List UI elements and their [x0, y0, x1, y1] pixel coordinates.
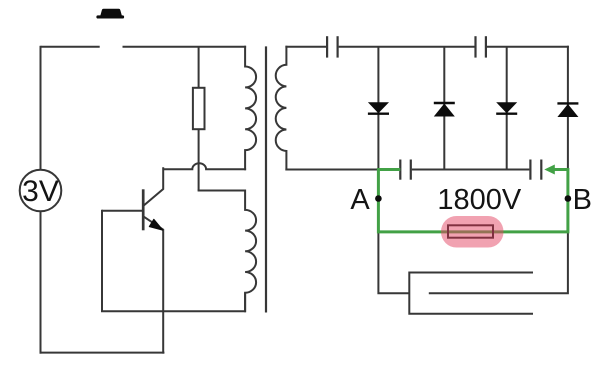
svg-text:3V: 3V — [22, 175, 59, 208]
resistor R1 — [193, 88, 205, 129]
push button S1 cap — [96, 9, 124, 19]
top rail wire segment 1 — [285, 46, 326, 48]
green arrow into capacitor C4 — [544, 165, 555, 175]
diode D1 (pointing down) — [368, 102, 389, 114]
node B dot — [565, 195, 572, 202]
svg-text:1800V: 1800V — [437, 184, 522, 216]
wire battery bottom horizontal — [40, 352, 165, 354]
transformer feedback winding W1 (top-left) — [245, 46, 256, 170]
bottom rail wire segment 1 (secondary to node A column) — [285, 169, 379, 171]
diode D3 (pointing down) — [496, 102, 517, 114]
electrode comb A (outer prongs) — [408, 273, 533, 314]
diode D4 column wire — [567, 46, 569, 171]
wire collector to feedback winding with hop over resistor wire — [163, 163, 246, 169]
feedback loop wire (base to winding bottom) — [102, 211, 245, 311]
electrode wire from node B column — [429, 230, 568, 293]
capacitor C3 — [400, 160, 411, 180]
diode D4 (pointing up) — [557, 103, 578, 117]
transistor Q1 — [102, 167, 163, 353]
pink highlight over fuse — [441, 216, 504, 248]
bottom rail wire segment 2 — [412, 169, 530, 171]
capacitor C1 — [327, 36, 338, 57]
capacitor C4 — [530, 160, 541, 180]
diode D2 (pointing up) — [434, 103, 455, 117]
transformer secondary winding — [276, 46, 287, 171]
electrode wire from node A column — [378, 230, 409, 293]
transformer primary winding W2 (bottom-left) — [245, 190, 256, 313]
diode D1 column wire — [377, 47, 379, 171]
diode D3 column wire — [506, 47, 508, 171]
capacitor C2 — [476, 36, 486, 57]
switch contact wire right segment (top wire to transformer) — [123, 46, 247, 48]
transformer core — [265, 46, 267, 312]
top rail wire segment 3 — [487, 46, 569, 48]
battery source 3V — [20, 170, 62, 212]
diode D2 column wire — [443, 47, 445, 171]
node A dot — [375, 195, 382, 202]
wire resistor to primary winding top — [198, 190, 246, 192]
wire battery left vertical bottom — [40, 211, 42, 353]
wire battery left vertical top — [40, 46, 42, 170]
resistor R1 wire bottom (passes under hop) — [198, 129, 200, 190]
green output wire A side vertical and bottom loop — [378, 170, 568, 232]
fuse F1 — [448, 225, 493, 237]
svg-text:A: A — [350, 184, 370, 216]
switch contact wire left segment — [41, 46, 100, 48]
resistor R1 branch wire top — [198, 47, 200, 88]
top rail wire segment 2 — [339, 46, 475, 48]
svg-text:B: B — [573, 184, 592, 216]
